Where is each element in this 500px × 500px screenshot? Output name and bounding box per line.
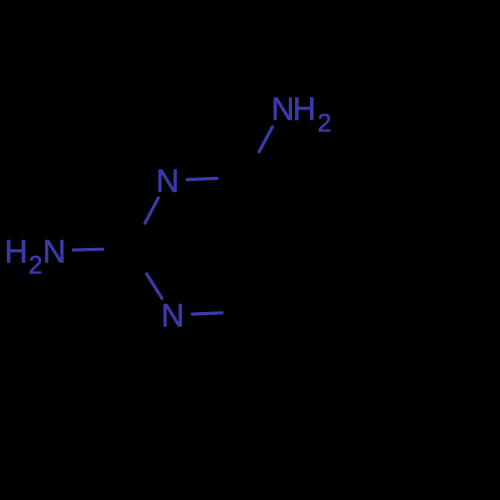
wire: bond N1 - C8a (blue half): [192, 313, 222, 314]
svg-text:N: N: [156, 163, 179, 199]
wire: bond N3 - C2 (blue half): [145, 198, 158, 223]
svg-text:H: H: [293, 91, 316, 127]
svg-text:2: 2: [29, 252, 43, 280]
svg-text:H: H: [5, 234, 28, 270]
svg-text:2: 2: [318, 110, 332, 138]
node H2N: left amine label: [5, 234, 66, 280]
wire: bond N3 - C4 (blue half): [187, 178, 217, 179]
svg-text:N: N: [43, 234, 66, 270]
svg-text:N: N: [161, 298, 184, 334]
wire: bond C4 - NH2 amine (blue half): [259, 127, 272, 152]
wire: bond C2 - N1 (blue half): [147, 274, 163, 299]
svg-text:N: N: [271, 91, 294, 127]
node NH2: top amine label: [271, 91, 331, 138]
wire: bond H2N amine - C2 (blue half): [73, 248, 102, 252]
